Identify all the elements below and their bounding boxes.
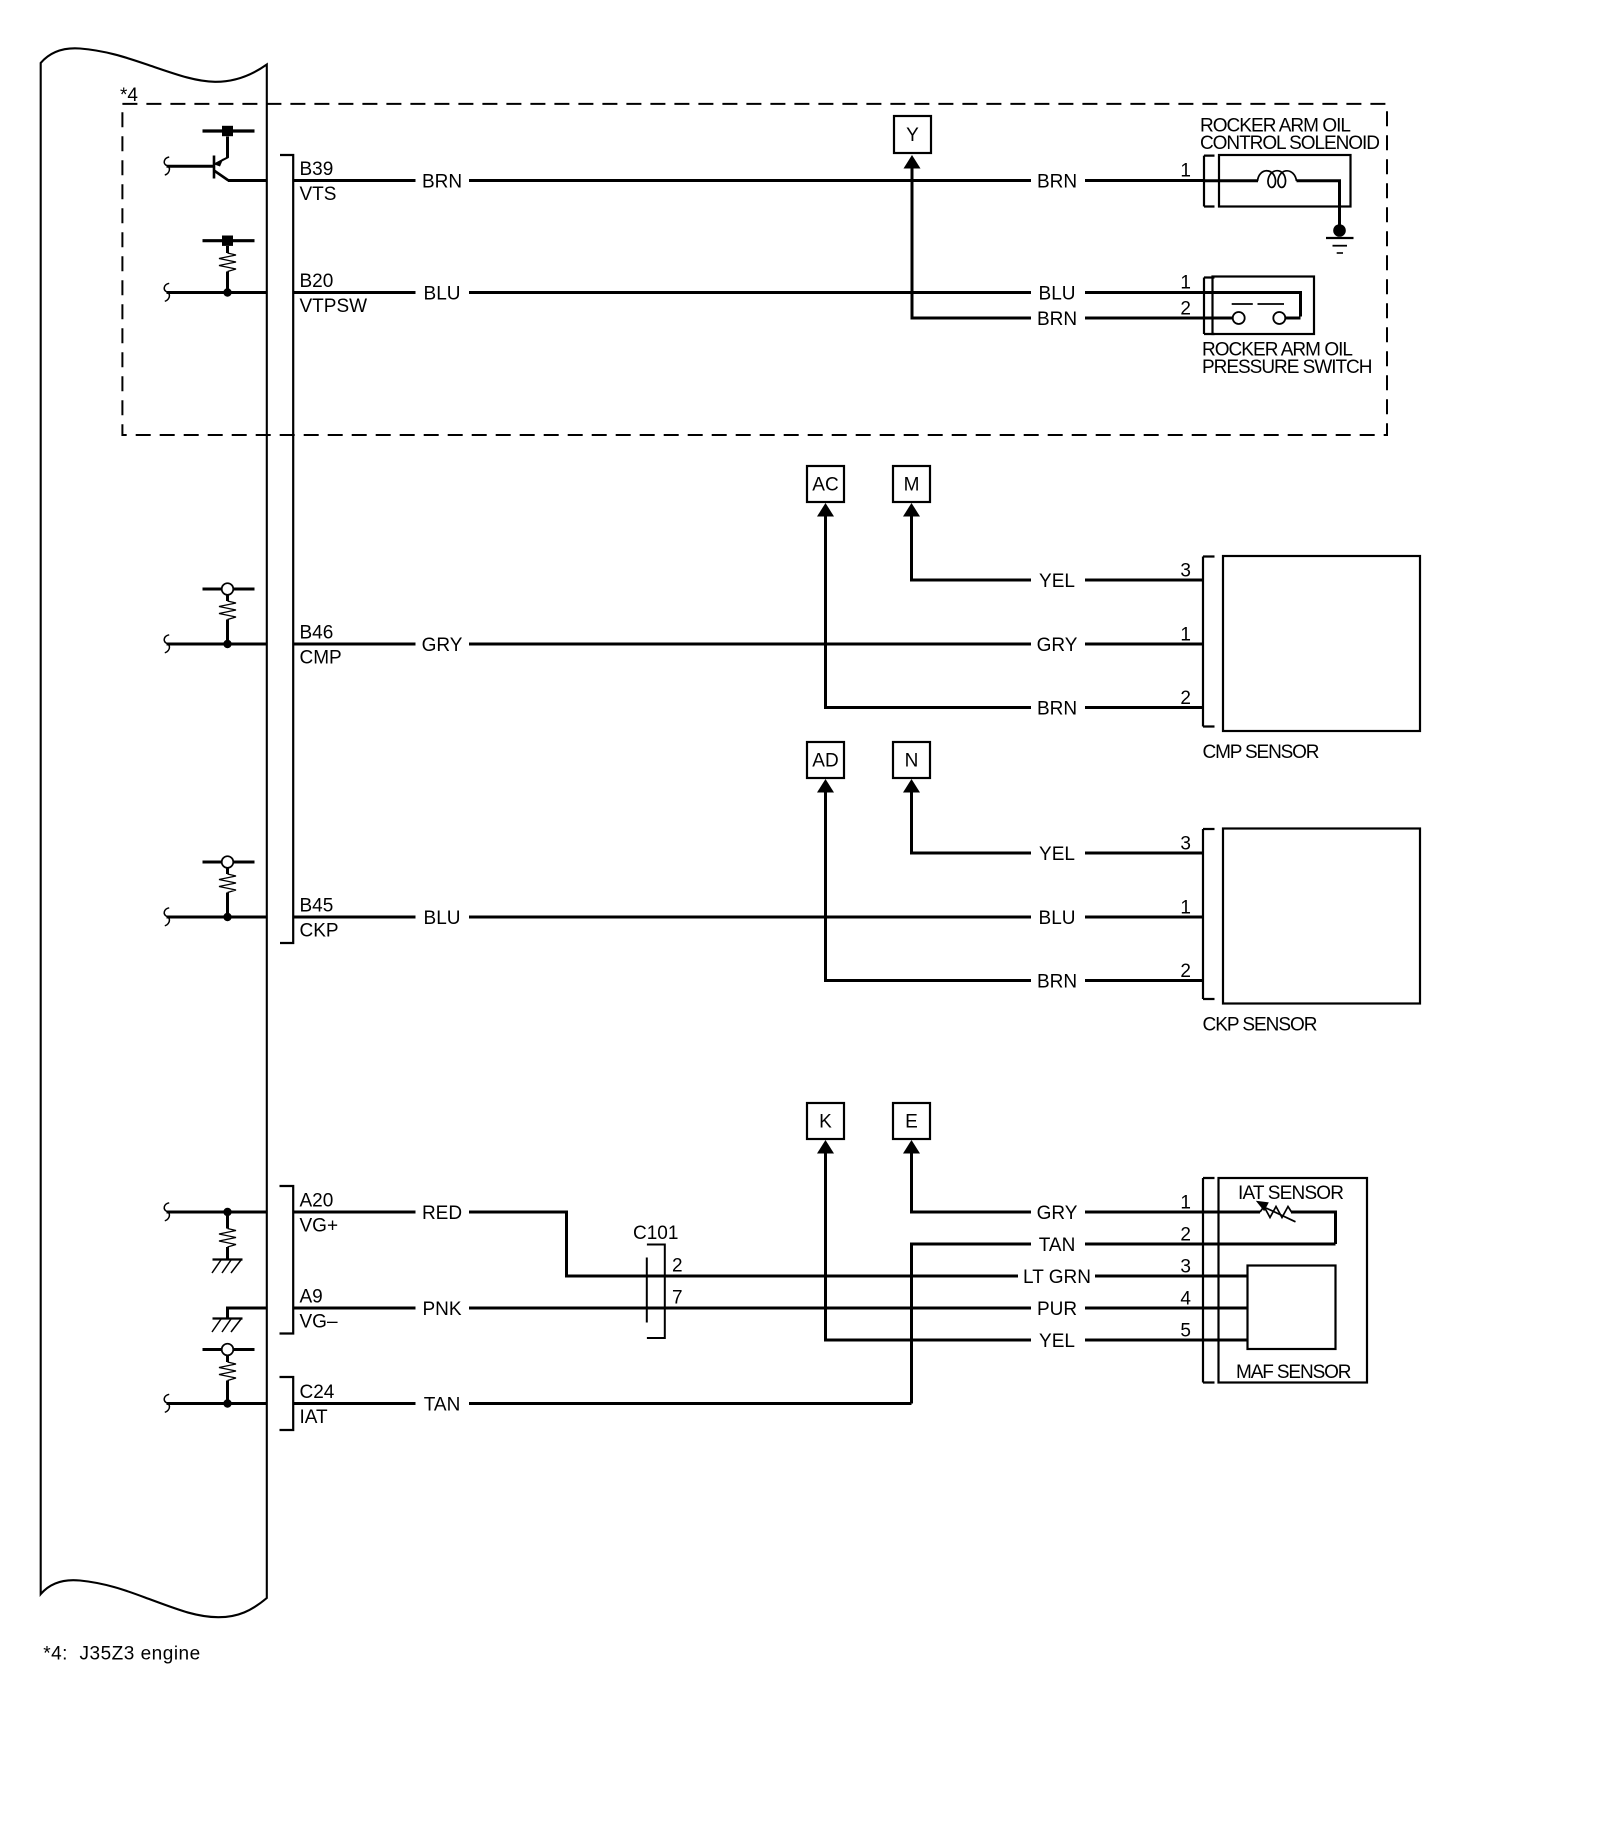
svg-text:VTS: VTS bbox=[300, 184, 337, 205]
wire B39 bracket to label BRN bbox=[293, 179, 415, 182]
wire TAN riser to IAT return bbox=[912, 1244, 1032, 1404]
svg-text:1: 1 bbox=[1180, 1193, 1191, 1214]
wire TAN to IAT sensor pin 2 bbox=[1085, 1243, 1336, 1246]
svg-text:TAN: TAN bbox=[424, 1395, 461, 1416]
svg-text:1: 1 bbox=[1180, 898, 1191, 919]
wire-break squiggle B46 bbox=[164, 635, 169, 653]
MAF/IAT sensor outer box bbox=[1219, 1178, 1368, 1383]
wire C24 bracket to label bbox=[293, 1402, 415, 1405]
wire BRN to CKP sensor pin 2 bbox=[1085, 979, 1203, 982]
arrow into K bbox=[817, 1140, 834, 1154]
dashed option box *4 (J35Z3 engine) bbox=[122, 104, 1387, 435]
wire PUR to MAF sensor pin 4 bbox=[1085, 1307, 1248, 1310]
wire B20 bracket to label bbox=[293, 291, 415, 294]
junction dot C24 bbox=[223, 1399, 231, 1407]
wire BLU to pressure switch pin 1 bbox=[1085, 291, 1204, 294]
svg-text:BRN: BRN bbox=[1037, 972, 1077, 993]
svg-text:YEL: YEL bbox=[1039, 844, 1075, 865]
svg-text:PUR: PUR bbox=[1037, 1299, 1077, 1320]
arrow into Y bbox=[904, 155, 921, 169]
wire CMP BRN up to connector AC bbox=[826, 516, 1032, 708]
wire BLU across bbox=[469, 916, 1031, 919]
wire C24 from harness break bbox=[167, 1402, 267, 1405]
svg-text:BLU: BLU bbox=[424, 284, 461, 305]
svg-text:5: 5 bbox=[1180, 1321, 1191, 1342]
wire LT GRN to MAF sensor pin 3 bbox=[1095, 1275, 1248, 1278]
svg-text:2: 2 bbox=[1180, 688, 1191, 709]
svg-text:MAF SENSOR: MAF SENSOR bbox=[1236, 1362, 1352, 1383]
svg-text:CKP SENSOR: CKP SENSOR bbox=[1203, 1015, 1318, 1036]
pressure switch pin1 internal wire bbox=[1204, 293, 1301, 317]
svg-text:C24: C24 bbox=[300, 1382, 335, 1403]
svg-text:E: E bbox=[905, 1112, 918, 1133]
in-line connector C101 bbox=[646, 1258, 648, 1323]
svg-text:BRN: BRN bbox=[1037, 309, 1077, 330]
connector box AD bbox=[807, 742, 844, 778]
svg-text:K: K bbox=[819, 1112, 832, 1133]
svg-text:PNK: PNK bbox=[422, 1299, 461, 1320]
CMP sensor connector bracket bbox=[1203, 557, 1215, 727]
transistor Q1 driver for VTS (inside ECM) bbox=[226, 137, 229, 158]
svg-text:1: 1 bbox=[1180, 625, 1191, 646]
ground symbol G1 bbox=[1326, 237, 1354, 239]
svg-text:CMP: CMP bbox=[300, 648, 342, 669]
svg-text:GRY: GRY bbox=[1037, 1203, 1078, 1224]
ECM connector bracket A20/A9 bbox=[280, 1186, 294, 1334]
svg-text:B45: B45 bbox=[300, 896, 334, 917]
solenoid wire coil to ground bbox=[1297, 181, 1340, 226]
svg-text:A9: A9 bbox=[300, 1287, 323, 1308]
svg-text:3: 3 bbox=[1180, 834, 1191, 855]
arrow into M bbox=[903, 503, 920, 517]
junction dot B46 bbox=[223, 640, 231, 648]
rocker arm oil control solenoid L1 box bbox=[1219, 155, 1351, 207]
wire BLU to CKP sensor pin 1 bbox=[1085, 916, 1203, 919]
svg-text:2: 2 bbox=[672, 1256, 683, 1277]
wire RED to C101 pin 2 bbox=[469, 1212, 1018, 1276]
solenoid coil L1 bbox=[1258, 171, 1297, 188]
wire YEL to MAF sensor pin 5 bbox=[1085, 1339, 1248, 1342]
svg-text:BLU: BLU bbox=[1039, 284, 1076, 305]
wire MAF YEL up to connector K bbox=[826, 1153, 1032, 1340]
wire-break squiggle A20 bbox=[164, 1203, 169, 1221]
wire BRN to CMP sensor pin 2 bbox=[1085, 706, 1203, 709]
svg-text:AD: AD bbox=[812, 751, 838, 772]
power symbol above Q1 bbox=[203, 126, 255, 136]
pullup with test point above C24 (inside ECM) bbox=[226, 1356, 229, 1362]
wire BLU across bbox=[469, 291, 1031, 294]
pressure switch contact stub bbox=[1285, 317, 1301, 320]
svg-text:CONTROL SOLENOID: CONTROL SOLENOID bbox=[1200, 133, 1380, 154]
connector box K bbox=[807, 1103, 844, 1139]
svg-text:AC: AC bbox=[812, 475, 838, 496]
pullup with test point above B46 (inside ECM) bbox=[226, 596, 229, 602]
IAT internal return wire bbox=[1291, 1212, 1336, 1244]
wire CKP YEL up to connector N bbox=[912, 792, 1032, 853]
svg-text:BLU: BLU bbox=[424, 908, 461, 929]
svg-text:7: 7 bbox=[672, 1288, 683, 1309]
svg-text:IAT SENSOR: IAT SENSOR bbox=[1238, 1183, 1344, 1204]
resistor to ground below A20 (inside ECM) bbox=[226, 1212, 229, 1229]
wire Q1 base from harness break bbox=[167, 165, 215, 168]
svg-text:2: 2 bbox=[1180, 299, 1191, 320]
svg-text:BRN: BRN bbox=[1037, 172, 1077, 193]
svg-text:LT GRN: LT GRN bbox=[1023, 1267, 1091, 1288]
svg-text:*4: *4 bbox=[120, 85, 138, 106]
svg-text:VG+: VG+ bbox=[300, 1216, 339, 1237]
wire IAT GRY up to connector E bbox=[912, 1153, 1032, 1212]
svg-text:RED: RED bbox=[422, 1203, 462, 1224]
svg-text:IAT: IAT bbox=[300, 1407, 329, 1428]
svg-text:GRY: GRY bbox=[1037, 635, 1078, 656]
arrow into AD bbox=[817, 779, 834, 793]
svg-text:CKP: CKP bbox=[300, 921, 339, 942]
arrow into AC bbox=[817, 503, 834, 517]
svg-text:2: 2 bbox=[1180, 1225, 1191, 1246]
svg-text:VG–: VG– bbox=[300, 1312, 338, 1333]
svg-text:3: 3 bbox=[1180, 1257, 1191, 1278]
CKP sensor box bbox=[1223, 829, 1420, 1004]
thermistor arrow bbox=[1266, 1208, 1296, 1222]
chassis ground at A9 (inside ECM) bbox=[228, 1308, 267, 1319]
arrow into E bbox=[903, 1140, 920, 1154]
junction dot B45 bbox=[223, 913, 231, 921]
svg-text:YEL: YEL bbox=[1039, 571, 1075, 592]
svg-text:YEL: YEL bbox=[1039, 1331, 1075, 1352]
ECM/PCM torn-page outline bbox=[41, 48, 267, 1617]
wire YEL to CKP sensor pin 3 bbox=[1085, 852, 1203, 855]
svg-text:VTPSW: VTPSW bbox=[300, 296, 368, 317]
pullup with test point above B45 (inside ECM) bbox=[226, 869, 229, 875]
connector box AC bbox=[807, 466, 844, 502]
wire B20 from harness break bbox=[167, 291, 267, 294]
svg-text:N: N bbox=[905, 751, 919, 772]
wire B45 from harness break bbox=[167, 916, 267, 919]
connector box Y bbox=[894, 116, 931, 153]
wire-break squiggle B39 base bbox=[164, 157, 169, 175]
svg-text:4: 4 bbox=[1180, 1289, 1191, 1310]
wire BRN to solenoid pin 1 bbox=[1085, 179, 1204, 182]
svg-text:Y: Y bbox=[906, 125, 919, 146]
svg-text:M: M bbox=[904, 475, 920, 496]
ground dot G1 bbox=[1333, 224, 1346, 237]
connector box E bbox=[893, 1103, 930, 1139]
power symbol above R pullup B20 bbox=[203, 236, 255, 246]
arrow into N bbox=[903, 779, 920, 793]
ECM connector bracket C24 bbox=[280, 1377, 294, 1430]
CMP sensor box bbox=[1223, 556, 1420, 731]
svg-text:1: 1 bbox=[1180, 273, 1191, 294]
resistor R1 pullup (inside ECM) bbox=[226, 246, 229, 253]
CKP sensor connector bracket bbox=[1203, 829, 1215, 999]
pressure switch contact b bbox=[1273, 312, 1285, 324]
pressure switch movable blade (dashed) bbox=[1232, 303, 1253, 305]
wire CKP BRN up to connector AD bbox=[826, 792, 1032, 981]
svg-text:CMP SENSOR: CMP SENSOR bbox=[1203, 742, 1320, 763]
solenoid feed wire into coil bbox=[1204, 179, 1258, 182]
svg-text:1: 1 bbox=[1180, 161, 1191, 182]
connector box N bbox=[893, 742, 930, 778]
svg-text:GRY: GRY bbox=[422, 635, 463, 656]
svg-text:B39: B39 bbox=[300, 159, 334, 180]
connector box M bbox=[893, 466, 930, 502]
svg-text:BRN: BRN bbox=[1037, 699, 1077, 720]
pressure switch connector bracket bbox=[1204, 278, 1215, 335]
junction dot B20 bbox=[223, 288, 231, 296]
solenoid connector bracket bbox=[1204, 156, 1215, 207]
wire B45 bracket to label bbox=[293, 916, 415, 919]
wire B46 bracket to label bbox=[293, 643, 415, 646]
rocker arm oil pressure switch box bbox=[1213, 277, 1315, 335]
IAT thermistor RT1 bbox=[1260, 1207, 1292, 1218]
wire CMP YEL up to connector M bbox=[912, 516, 1032, 580]
wire A20 bracket to label bbox=[293, 1211, 415, 1214]
wire-break squiggle B45 bbox=[164, 908, 169, 926]
svg-text:A20: A20 bbox=[300, 1191, 334, 1212]
svg-text:B46: B46 bbox=[300, 623, 334, 644]
wire GRY to CMP sensor pin 1 bbox=[1085, 643, 1203, 646]
wire GRY to IAT sensor pin 1 bbox=[1085, 1211, 1260, 1214]
wire-break squiggle B20 bbox=[164, 283, 169, 301]
svg-text:C101: C101 bbox=[633, 1223, 678, 1244]
wire TAN across to riser bbox=[469, 1402, 912, 1405]
wire from pressure switch BRN up to connector Y bbox=[912, 168, 1204, 318]
MAF sensor inner box bbox=[1248, 1266, 1336, 1350]
wire A9 bracket to label bbox=[293, 1307, 415, 1310]
svg-text:3: 3 bbox=[1180, 561, 1191, 582]
ECM connector bracket B pins bbox=[280, 155, 293, 943]
wire PNK through C101 pin 7 bbox=[469, 1307, 1031, 1310]
svg-text:TAN: TAN bbox=[1039, 1235, 1076, 1256]
wire YEL to CMP sensor pin 3 bbox=[1085, 579, 1203, 582]
svg-text:2: 2 bbox=[1180, 961, 1191, 982]
wire-break squiggle C24 bbox=[164, 1394, 169, 1412]
svg-text:BLU: BLU bbox=[1039, 908, 1076, 929]
chassis ground below A20 bbox=[212, 1260, 243, 1274]
wire BRN across to solenoid label bbox=[469, 179, 1031, 182]
svg-text:PRESSURE SWITCH: PRESSURE SWITCH bbox=[1202, 357, 1373, 378]
junction dot A20 bbox=[223, 1208, 231, 1216]
svg-text:*4: J35Z3 engine: *4: J35Z3 engine bbox=[43, 1644, 200, 1665]
wire GRY across bbox=[469, 643, 1031, 646]
wire A20 from harness break bbox=[167, 1211, 267, 1214]
pressure switch contact a bbox=[1233, 312, 1245, 324]
pressure switch pin2 internal wire bbox=[1204, 317, 1233, 320]
wire B46 from harness break bbox=[167, 643, 267, 646]
svg-text:B20: B20 bbox=[300, 271, 334, 292]
wire color label BRN (pressure switch pin 2) bbox=[1031, 308, 1085, 328]
svg-text:BRN: BRN bbox=[422, 172, 462, 193]
wire B39 emitter to ECM edge bbox=[228, 179, 267, 182]
MAF/IAT connector bracket bbox=[1203, 1178, 1215, 1383]
